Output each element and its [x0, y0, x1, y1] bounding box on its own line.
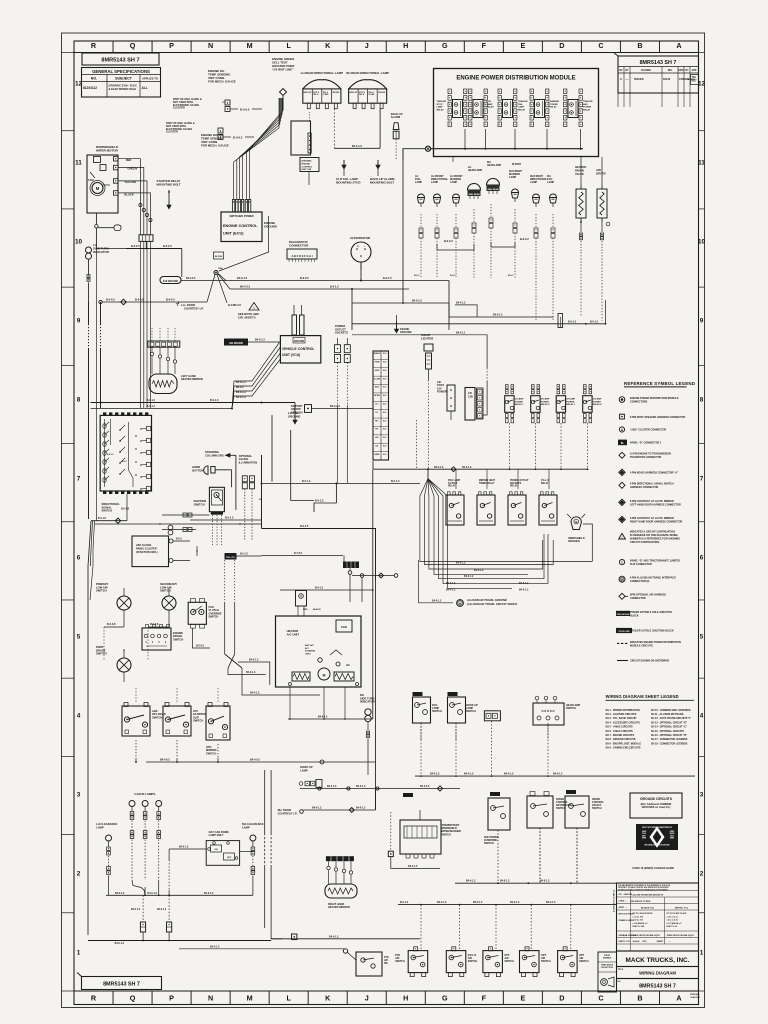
- svg-text:SWITCH: SWITCH: [432, 710, 442, 713]
- fog lamp switch: [413, 692, 423, 696]
- svg-text:8 PIN ROOF SPEAKER HARNESS CON: 8 PIN ROOF SPEAKER HARNESS CONNECTOR: [630, 416, 685, 419]
- svg-text:LAMP: LAMP: [547, 181, 554, 184]
- svg-text:GROUND: GROUND: [294, 341, 305, 343]
- svg-text:GROUND: GROUND: [288, 414, 300, 418]
- svg-text:UP TO 150 DEC PLACE: UP TO 150 DEC PLACE: [667, 912, 688, 915]
- svg-text:SWITCH: SWITCH: [484, 842, 494, 845]
- legend item INDICATES A CIRCUIT CONTINUATI: [619, 533, 626, 539]
- svg-text:—: —: [626, 77, 629, 81]
- svg-text:SWITCH: SWITCH: [96, 652, 107, 656]
- svg-text:LAMP: LAMP: [450, 181, 457, 184]
- svg-text:RELAY 2: RELAY 2: [541, 403, 551, 406]
- svg-text:OF DASH: OF DASH: [291, 410, 303, 414]
- svg-text:RV: RV: [619, 70, 623, 72]
- svg-text:GROUND: GROUND: [378, 92, 386, 94]
- svg-text:GROUNDS on sheet 10.): GROUNDS on sheet 10.): [642, 806, 671, 809]
- svg-text:± .02 ±± .010: ± .02 ±± .010: [633, 920, 643, 922]
- svg-text:B4-0-1.3: B4-0-1.3: [553, 773, 563, 776]
- svg-text:CLEAR: CLEAR: [368, 93, 375, 96]
- svg-text:DRAWES: DRAWES: [603, 957, 612, 960]
- svg-text:“G4 WHT LINE”: “G4 WHT LINE”: [272, 68, 294, 72]
- svg-text:3: 3: [77, 791, 81, 798]
- svg-text:CGAN 02-5: CGAN 02-5: [690, 996, 700, 999]
- svg-text:SH 4 - ACCESSORY CIRCUITS: SH 4 - ACCESSORY CIRCUITS: [606, 721, 641, 724]
- svg-text:B-0-1.3: B-0-1.3: [107, 454, 113, 456]
- svg-text:B4-0-1.3: B4-0-1.3: [318, 716, 328, 719]
- svg-text:SWITCH: SWITCH: [193, 719, 203, 723]
- svg-text:7: 7: [77, 475, 81, 482]
- switch OPT. A/R SWITCH: [483, 951, 503, 973]
- svg-text:270 AMP: 270 AMP: [566, 398, 575, 401]
- svg-text:REL: REL: [668, 70, 673, 72]
- svg-text:THIRD GROUP DECIMAL EQUIV: THIRD GROUP DECIMAL EQUIV: [667, 934, 695, 937]
- svg-text:B-0-1.3: B-0-1.3: [147, 399, 156, 402]
- svg-text:B4-0-1.3: B4-0-1.3: [493, 314, 503, 317]
- svg-text:WIRING DIAGRAM: WIRING DIAGRAM: [639, 971, 676, 976]
- svg-text:ILLUMINATION: ILLUMINATION: [239, 460, 258, 464]
- svg-text:B4-0-1.3: B4-0-1.3: [466, 880, 476, 883]
- gauge cluster link wires: [196, 546, 198, 556]
- svg-text:FOR MECH. GAUGE: FOR MECH. GAUGE: [201, 144, 229, 148]
- svg-text:RELAY: RELAY: [541, 482, 549, 485]
- intermittent windshield wiper washer switch: [403, 793, 413, 797]
- svg-text:G: G: [442, 41, 448, 50]
- svg-text:LAMP: LAMP: [431, 181, 438, 184]
- inline connector pair: [484, 711, 500, 721]
- vehicle control unit VCU: [292, 315, 297, 335]
- legend item 8 PIN COURTESY LP. & HTD. MIRR: [619, 499, 625, 505]
- svg-text:SH 6 - V-MAC CIRCUITS: SH 6 - V-MAC CIRCUITS: [606, 730, 634, 733]
- legend item INDICATES ENGINE POWER DISTRIB: [617, 642, 628, 644]
- alternator down wires: [360, 262, 362, 281]
- svg-text:UNIT (ECU): UNIT (ECU): [223, 232, 244, 236]
- switch PTO A/R SWITCH: [408, 951, 428, 973]
- svg-text:B4-0-1.2: B4-0-1.2: [432, 600, 442, 603]
- svg-text:RADIO: RADIO: [374, 352, 381, 355]
- svg-text:POWER: POWER: [593, 401, 602, 403]
- svg-text:ALL: ALL: [142, 86, 148, 90]
- svg-text:11: 11: [75, 159, 82, 166]
- svg-text:—: —: [625, 907, 627, 909]
- 270 amp power relay 4: [584, 385, 587, 389]
- legend item 8 PIN COURTESY LP. & HTD. MIRR: [619, 516, 625, 522]
- legend item 6PIN OPTIONAL A/R HARNESS: [619, 593, 625, 599]
- svg-text:B-0-1.3: B-0-1.3: [400, 901, 409, 904]
- svg-text:RELAY: RELAY: [550, 106, 558, 109]
- svg-text:WASHER: WASHER: [568, 539, 580, 543]
- general specifications table: [82, 68, 161, 98]
- PTO switch bottom: [343, 949, 347, 953]
- legend item PANEL “D” CONNECTOR 1: [618, 440, 627, 446]
- svg-text:RIGHT HAND DOOR HARNESS CONNEC: RIGHT HAND DOOR HARNESS CONNECTOR: [630, 520, 682, 523]
- ground circuits note box: [630, 793, 682, 818]
- svg-text:FOG LAMP: FOG LAMP: [448, 479, 461, 482]
- svg-text:SWITCH: SWITCH: [194, 502, 205, 506]
- svg-text:!: !: [622, 535, 623, 539]
- svg-text:RELAY 3: RELAY 3: [566, 403, 576, 406]
- engine power distribution module box: [434, 69, 599, 157]
- mack trucks title: [617, 951, 699, 967]
- wire bundle ECU to engine harness: [234, 98, 279, 200]
- svg-text:± .030 ANGLE ± 1°: ± .030 ANGLE ± 1°: [633, 922, 649, 925]
- svg-text:TITLE: TITLE: [618, 969, 624, 971]
- svg-text:GENERAL SPECIFICATIONS: GENERAL SPECIFICATIONS: [92, 69, 150, 74]
- svg-text:B-7-2.5: B-7-2.5: [294, 552, 303, 555]
- svg-text:TRAILER: TRAILER: [437, 100, 447, 103]
- svg-text:—: —: [669, 941, 671, 943]
- svg-text:TRAILER: TRAILER: [518, 100, 528, 103]
- svg-text:N: N: [208, 41, 213, 50]
- svg-text:CONNECTORS: CONNECTORS: [630, 400, 648, 403]
- svg-text:B-0-1: B-0-1: [450, 275, 456, 277]
- svg-text:B4-0-1.3: B4-0-1.3: [312, 807, 322, 810]
- svg-text:HEADLAMP: HEADLAMP: [487, 164, 501, 167]
- misc stub: [452, 157, 454, 162]
- svg-text:4 PIN MOOG HARNESS CONNECTOR “: 4 PIN MOOG HARNESS CONNECTOR “A”: [630, 472, 679, 475]
- svg-text:MOUNTING STUD: MOUNTING STUD: [336, 181, 360, 185]
- svg-text:POWER: POWER: [515, 401, 524, 403]
- svg-text:SEAL BEAM: SEAL BEAM: [468, 193, 480, 196]
- svg-text:V-MAC III (E/M24) CHASSIS HAR: V-MAC III (E/M24) CHASSIS HARN.: [632, 866, 675, 870]
- svg-text:LEFT HAND DOOR HARNESS CONNECT: LEFT HAND DOOR HARNESS CONNECTOR: [630, 503, 681, 506]
- svg-text:B4-0-1.3: B4-0-1.3: [157, 908, 167, 911]
- switch row ground bus bottom: [420, 723, 422, 776]
- svg-text:D: D: [559, 41, 564, 50]
- svg-text:LAMP: LAMP: [530, 181, 537, 184]
- svg-text:B-0-0.5: B-0-0.5: [135, 298, 144, 302]
- svg-text:SHEET: SHEET: [657, 941, 664, 943]
- svg-text:HERE: HERE: [670, 838, 674, 840]
- svg-text:B4-0-1.3: B4-0-1.3: [437, 901, 447, 904]
- svg-text:BY: BY: [625, 70, 629, 72]
- svg-text:SWITCH: SWITCH: [541, 960, 551, 963]
- svg-text:SWITCH: SWITCH: [173, 637, 183, 641]
- svg-text:8MR5143 SH 7: 8MR5143 SH 7: [639, 984, 676, 990]
- svg-text:SWITCH: SWITCH: [152, 715, 162, 719]
- EPDM relay TRAILER STOP LAMP RELAY: [448, 89, 451, 94]
- svg-text:POWER OUTLET: POWER OUTLET: [510, 480, 529, 482]
- svg-text:10: 10: [75, 238, 83, 245]
- svg-text:SH 12 - AUTO.TRANS.CIRCUITS”V”: SH 12 - AUTO.TRANS.CIRCUITS”V”: [651, 717, 692, 720]
- svg-text:A: A: [676, 41, 681, 50]
- engine brake switch: [142, 628, 171, 650]
- svg-text:G: G: [442, 993, 448, 1002]
- ground splice fan: [420, 479, 428, 522]
- svg-text:BLACK: BLACK: [313, 608, 321, 611]
- svg-text:(FUNCTION GRD.): (FUNCTION GRD.): [136, 551, 158, 554]
- legend item 8 PIN ALLISON HD TRANS. INTER: [619, 576, 625, 582]
- svg-text:ALARM: ALARM: [391, 115, 400, 119]
- clearance lamp drops: [142, 895, 144, 922]
- svg-text:A: A: [620, 77, 622, 81]
- svg-text:COLUMN GRD.: COLUMN GRD.: [205, 453, 225, 457]
- svg-text:CONTROL: CONTROL: [302, 166, 313, 168]
- svg-text:RELAY: RELAY: [487, 106, 495, 109]
- svg-text:B-7485-2.0: B-7485-2.0: [228, 303, 242, 307]
- svg-text:B4-0-0.5: B4-0-0.5: [186, 277, 196, 280]
- svg-text:MOUNTING BOLT: MOUNTING BOLT: [157, 183, 181, 187]
- 270 amp power relay 3: [557, 385, 560, 389]
- svg-text:B-0-1.8: B-0-1.8: [121, 508, 130, 511]
- HTD mirror switch: [206, 706, 230, 740]
- svg-text:SH 1 - POWER DISTRIBUTION: SH 1 - POWER DISTRIBUTION: [606, 709, 640, 712]
- svg-text:LAMP: LAMP: [242, 825, 250, 829]
- left vertical bus wires: [88, 302, 90, 324]
- sheet number box bottom-left: [82, 977, 162, 990]
- svg-text:A/R: A/R: [384, 959, 388, 962]
- bottom switch drops: [420, 905, 422, 949]
- svg-text:B-0-1.5: B-0-1.5: [330, 285, 339, 289]
- engine ground splice: [214, 252, 224, 259]
- svg-text:B-0-1.3: B-0-1.3: [210, 399, 219, 402]
- bottom bus 2: [398, 904, 616, 906]
- svg-text:B4-0-1.5: B4-0-1.5: [408, 865, 418, 868]
- svg-text:CLEAR: CLEAR: [323, 93, 330, 96]
- svg-text:8MR5143 SH 7: 8MR5143 SH 7: [640, 60, 677, 66]
- svg-text:A/C UNIT: A/C UNIT: [287, 633, 300, 637]
- svg-text:UNIT 12B: UNIT 12B: [302, 169, 312, 171]
- svg-text:B4-0-1.3: B4-0-1.3: [546, 901, 556, 904]
- svg-text:SH 13 - OPTIONAL CIRCUIT “D”: SH 13 - OPTIONAL CIRCUIT “D”: [651, 721, 688, 724]
- wiper ground link: [95, 213, 97, 224]
- svg-text:270 AMP: 270 AMP: [541, 398, 550, 401]
- EPDM relay FOG LAMP RELAY: [469, 89, 472, 94]
- frame ground: [396, 321, 398, 329]
- svg-text:8MR5143 SH 7: 8MR5143 SH 7: [101, 58, 139, 64]
- svg-text:HERE: HERE: [642, 838, 646, 840]
- svg-text:TRAILER: TRAILER: [583, 100, 593, 103]
- svg-text:SH 16 - OPTIONAL CIRCUIT “B”: SH 16 - OPTIONAL CIRCUIT “B”: [651, 734, 688, 737]
- svg-text:DRYER: DRYER: [596, 171, 606, 175]
- svg-text:C: C: [598, 41, 603, 50]
- svg-text:SH 9 - CAMING ENG.CIRCUITS: SH 9 - CAMING ENG.CIRCUITS: [606, 747, 641, 750]
- legend item POWER OPTION 2 POLE JUNCTION: [616, 611, 630, 616]
- hook-up lamp switch: [448, 692, 458, 696]
- svg-text:REFERENCE SYMBOL LEGEND: REFERENCE SYMBOL LEGEND: [624, 381, 695, 386]
- svg-text:ILLUM: ILLUM: [374, 378, 380, 380]
- svg-text:MOUNTING BOLT: MOUNTING BOLT: [370, 181, 394, 185]
- svg-text:POWER: POWER: [583, 107, 592, 109]
- svg-text:B-0-2.5: B-0-2.5: [300, 525, 309, 528]
- svg-text:B4-0-1.3: B4-0-1.3: [356, 807, 366, 810]
- svg-text:SOCKETS: SOCKETS: [335, 331, 348, 335]
- svg-text:B-0-0.5: B-0-0.5: [300, 276, 309, 280]
- svg-text:B4-0-1.2: B4-0-1.2: [446, 589, 456, 592]
- svg-text:SWITCH: SWITCH: [96, 589, 107, 593]
- front lamp drop wires: [420, 214, 422, 228]
- heater crossover wires: [224, 560, 226, 602]
- svg-text:PROJECTION: PROJECTION: [601, 967, 613, 969]
- svg-text:B-0-1.3: B-0-1.3: [302, 480, 311, 483]
- svg-text:3: 3: [700, 791, 704, 798]
- svg-text:POWER: POWER: [541, 401, 550, 403]
- wiper harness bus: [126, 248, 182, 250]
- ATC limited slip switch: [163, 706, 191, 736]
- svg-text:B4-0-1.3: B4-0-1.3: [250, 692, 260, 695]
- svg-text:PANEL “D” CONNECTOR 1: PANEL “D” CONNECTOR 1: [630, 442, 662, 445]
- svg-text:CLUSTER: CLUSTER: [173, 107, 185, 110]
- svg-text:Q: Q: [130, 41, 136, 50]
- legend item 15 PIN ENGINE TO TRANSMISSION: [619, 452, 625, 458]
- svg-text:FOG: FOG: [487, 101, 492, 103]
- svg-text:270 AMP: 270 AMP: [593, 398, 602, 401]
- svg-text:SWITCH: SWITCH: [468, 960, 478, 963]
- svg-text:SWITCHED POWER: SWITCHED POWER: [229, 214, 253, 218]
- switch feed drops: [135, 688, 137, 702]
- ground circuits emblem: [636, 824, 678, 850]
- svg-text:PTO: PTO: [384, 957, 389, 959]
- svg-text:PWR: PWR: [375, 362, 380, 364]
- svg-text:K: K: [325, 993, 331, 1002]
- svg-text:(ENGINE): (ENGINE): [302, 161, 312, 163]
- svg-text:ALLISON HD TRANS. GROUND: ALLISON HD TRANS. GROUND: [467, 598, 507, 602]
- svg-text:B-0-0.5: B-0-0.5: [240, 108, 250, 112]
- svg-text:± 0.75 ANGLE ± 1°: ± 0.75 ANGLE ± 1°: [667, 922, 683, 925]
- svg-text:SWITCH: SWITCH: [504, 960, 514, 963]
- svg-text:OFF: OFF: [227, 857, 232, 859]
- svg-text:B4-0-2: B4-0-2: [236, 386, 244, 389]
- svg-text:FOR MECH. GAUGE: FOR MECH. GAUGE: [208, 80, 236, 84]
- svg-text:LAMP: LAMP: [509, 176, 516, 179]
- svg-text:B4-0-1.3: B4-0-1.3: [352, 145, 362, 148]
- svg-text:SH 11 - ALLISON MD TRANS.: SH 11 - ALLISON MD TRANS.: [651, 713, 684, 716]
- courtesy lamp bus: [300, 788, 460, 790]
- svg-text:K: K: [325, 41, 331, 50]
- svg-text:B4-0-1.1: B4-0-1.1: [456, 331, 466, 334]
- dome lamp feed wires: [169, 848, 206, 850]
- svg-text:B4-0-1.2: B4-0-1.2: [474, 569, 484, 572]
- svg-text:B4-0-1.5: B4-0-1.5: [237, 276, 248, 280]
- svg-text:B4-0-1.3: B4-0-1.3: [148, 892, 158, 895]
- svg-text:MEM: MEM: [375, 454, 380, 456]
- engine control unit ECU: [221, 212, 262, 242]
- svg-text:2L: 2L: [621, 441, 625, 445]
- svg-text:M: M: [575, 521, 577, 524]
- relay feed bus: [373, 461, 588, 469]
- svg-text:F: F: [482, 993, 487, 1002]
- svg-text:1-7-93: 1-7-93: [624, 941, 631, 943]
- svg-text:SWITCH: SWITCH: [579, 960, 589, 963]
- svg-text:5: 5: [77, 633, 81, 640]
- svg-text:SEAL BEAM: SEAL BEAM: [487, 188, 499, 191]
- svg-text:SWITCH: SWITCH: [102, 509, 113, 513]
- directional switch assembly: [100, 415, 151, 491]
- svg-text:B4-0-1.2: B4-0-1.2: [236, 381, 246, 384]
- svg-text:INDICATOR: INDICATOR: [93, 250, 110, 254]
- svg-text:5: 5: [700, 633, 704, 640]
- svg-text:± .25, ±± 0.13: ± .25, ±± 0.13: [667, 916, 678, 918]
- svg-text:CONNECTOR (2): CONNECTOR (2): [630, 580, 650, 583]
- svg-text:BACK-UP: BACK-UP: [349, 91, 358, 94]
- bottom-left long bus: [88, 940, 271, 942]
- svg-text:SIDE: SIDE: [670, 835, 674, 837]
- svg-text:L: L: [286, 993, 291, 1002]
- svg-text:SH 15 - OPTIONAL CIRCUITS: SH 15 - OPTIONAL CIRCUITS: [651, 730, 684, 733]
- svg-text:11: 11: [698, 159, 705, 166]
- svg-text:B4-0-1.2: B4-0-1.2: [446, 582, 456, 585]
- svg-text:J: J: [365, 993, 369, 1002]
- left trunk wire to bottom: [88, 408, 90, 519]
- svg-text:H: H: [403, 993, 408, 1002]
- svg-text:B4-0-1.3: B4-0-1.3: [249, 659, 259, 662]
- svg-text:8: 8: [700, 396, 704, 403]
- svg-text:1: 1: [77, 949, 81, 956]
- svg-text:NOT: NOT: [692, 79, 698, 82]
- right hand heated mirror: [326, 856, 354, 861]
- wiper lead wires and connector: [118, 159, 140, 235]
- svg-text:POWER: POWER: [550, 104, 559, 106]
- svg-text:ANY A/C: ANY A/C: [305, 644, 314, 647]
- legend item TRAILER 10 POLE JUNCTION BLOCK: [616, 628, 632, 633]
- svg-text:B-0-1.3: B-0-1.3: [225, 517, 234, 520]
- svg-text:SH 7 - ENGINE CIRCUITS: SH 7 - ENGINE CIRCUITS: [606, 734, 635, 737]
- svg-text:SWITCH: SWITCH: [566, 707, 576, 710]
- legend item PANEL “D” ABS TRACTION/ANTC LI: [619, 560, 624, 565]
- svg-text:B-0-1: B-0-1: [508, 275, 514, 277]
- svg-text:LF-: LF-: [375, 412, 378, 414]
- CPL 12B box: [465, 388, 475, 421]
- svg-text:B-0-1.8: B-0-1.8: [98, 517, 107, 520]
- svg-text:GROUND: GROUND: [400, 330, 412, 334]
- svg-text:B4-0-1.3: B4-0-1.3: [510, 901, 520, 904]
- svg-text:B4-0-1.2: B4-0-1.2: [519, 582, 529, 585]
- legend item 8 PIN DIRECTIONAL SIGNAL SWITC: [619, 482, 625, 488]
- svg-text:RELAY: RELAY: [510, 485, 518, 488]
- rear lamp drop wires: [333, 109, 335, 149]
- svg-text:TAIL A: TAIL A: [313, 93, 319, 96]
- svg-text:B-0-1.5: B-0-1.5: [383, 276, 392, 280]
- svg-text:RELAY 4: RELAY 4: [593, 403, 603, 406]
- svg-text:RF-: RF-: [375, 429, 379, 431]
- svg-text:8MR5143 SH 7: 8MR5143 SH 7: [103, 982, 140, 988]
- svg-text:HEATED MIRROR: HEATED MIRROR: [181, 377, 203, 381]
- svg-text:FRACT ± 1/64: FRACT ± 1/64: [633, 925, 645, 928]
- svg-text:R: R: [91, 993, 97, 1002]
- svg-text:B4-0-1.3: B4-0-1.3: [464, 773, 474, 776]
- allison HD trans ground: [418, 602, 453, 604]
- svg-text:CIRCUIT SHOWN ON OVERDRIVE: CIRCUIT SHOWN ON OVERDRIVE: [630, 660, 670, 663]
- third angle projection symbol: [598, 952, 617, 992]
- svg-text:B4-0-1.3: B4-0-1.3: [434, 466, 444, 469]
- radio connector strip: [373, 351, 389, 460]
- svg-text:STOP: STOP: [437, 104, 443, 106]
- svg-text:CAB ID LAMPS: CAB ID LAMPS: [134, 792, 155, 796]
- svg-text:NO: NO: [618, 981, 621, 983]
- svg-text:B4-0-1.2: B4-0-1.2: [519, 589, 529, 592]
- speed control on-off switch: [566, 790, 576, 794]
- svg-text:B-0-0.2: B-0-0.2: [444, 239, 453, 243]
- svg-text:POWER: POWER: [437, 390, 447, 394]
- ABC gauge panel cluster box: [132, 536, 169, 567]
- svg-text:B4-0-1.5: B4-0-1.5: [412, 300, 422, 303]
- EPDM relay TRAILER TAIL LAMP RELAY: [498, 89, 501, 94]
- heater A/C unit: [276, 616, 362, 687]
- svg-text:NO.: NO.: [91, 77, 97, 81]
- svg-text:± 0.5, ±± 0.25: ± 0.5, ±± 0.25: [667, 920, 678, 922]
- svg-text:CLUSTER: CLUSTER: [166, 131, 178, 134]
- bottom bus 1: [455, 882, 616, 884]
- svg-text:B4-0-1.3: B4-0-1.3: [430, 773, 440, 776]
- svg-text:RELAY: RELAY: [583, 108, 591, 111]
- svg-text:RELAY: RELAY: [448, 485, 456, 488]
- svg-text:M: M: [323, 674, 326, 678]
- svg-text:E: E: [520, 41, 525, 50]
- svg-text:B: B: [637, 41, 642, 50]
- svg-text:ONLY: ONLY: [305, 653, 311, 655]
- svg-text:VEHICLE CONTROL: VEHICLE CONTROL: [282, 347, 314, 351]
- svg-text:CIR. SHEETS: CIR. SHEETS: [238, 315, 256, 319]
- border frame with zone letters and numbers: [62, 33, 705, 1008]
